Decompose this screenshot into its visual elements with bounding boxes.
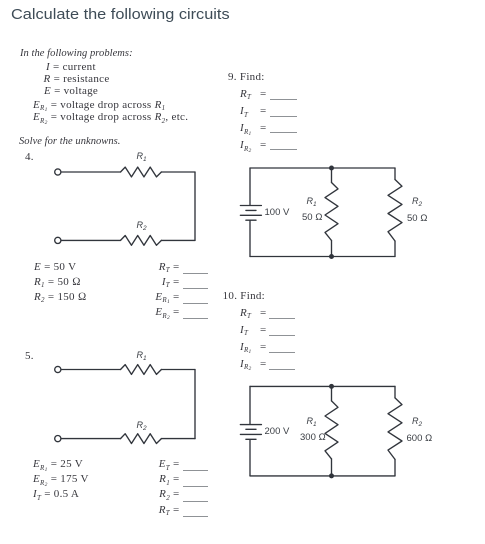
circuit 10 resistor R1 value 300 ohm xyxy=(300,433,326,443)
problem 9 unknown rows xyxy=(240,89,251,100)
problem 5 number xyxy=(25,351,34,362)
circuit 5 resistor R2 xyxy=(121,434,162,444)
circuit 4 bottom wire right xyxy=(161,239,195,241)
circuit 10 left wire bottom xyxy=(249,440,251,476)
circuit 9 resistor R2 value 50 ohm xyxy=(407,214,428,224)
circuit 9 resistor R2 xyxy=(388,180,402,242)
circuit 9 bottom rail xyxy=(250,256,395,258)
circuit 10 battery long plate 2 xyxy=(240,433,261,435)
circuit 9 R2 branch bottom wire xyxy=(394,241,396,257)
circuit 5 top wire xyxy=(61,369,120,371)
circuit 10 battery short plate 1 xyxy=(246,428,256,430)
circuit 9 R1 branch top wire xyxy=(331,168,333,183)
circuit 10 R2 branch top wire xyxy=(394,386,396,398)
circuit 10 resistor R2 value 600 ohm xyxy=(407,434,433,444)
circuit 4 resistor R2 xyxy=(121,236,162,246)
circuit 10 R2 branch bottom wire xyxy=(394,459,396,476)
circuit 10 resistor R1 label xyxy=(307,417,317,427)
problem 10 unknown rows xyxy=(240,308,251,319)
title xyxy=(11,7,230,22)
intro text block xyxy=(20,49,133,60)
circuit 9 R1 branch bottom wire xyxy=(331,241,333,257)
circuit 4 bottom wire xyxy=(61,239,120,241)
problem 5 given values xyxy=(33,459,83,470)
problem 4 unknown rows xyxy=(140,262,170,273)
circuit 5 terminal bottom xyxy=(55,436,61,442)
problem 4 given values xyxy=(34,262,76,273)
problem 5 unknown rows xyxy=(140,459,170,470)
circuit 10 R1 branch top wire xyxy=(331,386,333,401)
circuit 4 resistor R1 xyxy=(121,167,162,177)
circuit 9 resistor R1 label xyxy=(307,197,317,207)
problem 9 heading xyxy=(228,72,265,83)
problem 4 number xyxy=(25,152,34,163)
circuit 4 terminal top xyxy=(55,169,61,175)
circuit 5 resistor R2 label xyxy=(137,421,147,431)
circuit 10 left wire top xyxy=(249,386,251,424)
circuit 9 junction dot top xyxy=(329,166,334,171)
circuit 9 resistor R1 xyxy=(325,183,338,241)
circuit 5 resistor R1 label xyxy=(137,351,147,361)
circuit 10 resistor R1 xyxy=(325,401,338,459)
circuit 4 right wire xyxy=(194,172,196,240)
circuit 5 right wire xyxy=(194,370,196,439)
circuit 4 resistor R1 label xyxy=(137,152,147,162)
problem 10 heading xyxy=(223,291,265,302)
circuit 4 top wire right xyxy=(161,171,195,173)
circuit 5 bottom wire xyxy=(61,438,120,440)
circuit 9 battery long plate 1 xyxy=(240,205,261,207)
circuit 9 junction dot bottom xyxy=(329,254,334,259)
circuit 9 battery long plate 2 xyxy=(240,214,261,216)
circuit 9 top rail xyxy=(250,167,395,169)
circuit 9 resistor R1 value 50 ohm xyxy=(302,213,323,223)
circuit 9 left wire top xyxy=(249,168,251,205)
circuit 5 bottom wire right xyxy=(161,438,195,440)
circuit 9 battery value 100 V xyxy=(265,208,290,218)
circuit 10 bottom rail xyxy=(250,475,395,477)
circuit 10 battery value 200 V xyxy=(265,427,290,437)
circuit 10 resistor R2 xyxy=(388,398,402,460)
circuit 10 R1 branch bottom wire xyxy=(331,459,333,476)
circuit 10 battery short plate 2 xyxy=(246,438,256,440)
circuit 5 resistor R1 xyxy=(121,365,162,375)
circuit 5 top wire right xyxy=(161,369,195,371)
circuit 5 terminal top xyxy=(55,366,61,372)
circuit 9 battery short plate 2 xyxy=(246,219,256,221)
circuit 4 resistor R2 label xyxy=(137,221,147,231)
circuit 10 resistor R2 label xyxy=(412,417,422,427)
circuit 9 left wire bottom xyxy=(249,221,251,257)
circuit 4 terminal bottom xyxy=(55,237,61,243)
circuit 9 R2 branch top wire xyxy=(394,168,396,180)
circuit 9 resistor R2 label xyxy=(412,197,422,207)
circuit 10 junction dot top xyxy=(329,384,334,389)
circuit 4 top wire xyxy=(61,171,120,173)
circuit 10 junction dot bottom xyxy=(329,473,334,478)
circuit 10 top rail xyxy=(250,385,395,387)
circuit 10 battery long plate 1 xyxy=(240,424,261,426)
circuit 9 battery short plate 1 xyxy=(246,209,256,211)
